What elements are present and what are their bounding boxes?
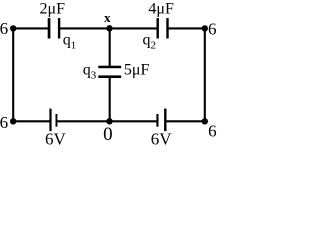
svg-text:6: 6 — [0, 113, 8, 132]
svg-text:6: 6 — [0, 19, 8, 38]
svg-text:6: 6 — [208, 121, 217, 140]
svg-text:q1: q1 — [63, 31, 77, 51]
svg-text:x: x — [104, 10, 111, 25]
svg-text:0: 0 — [103, 124, 113, 145]
svg-text:q2: q2 — [143, 31, 157, 51]
svg-text:q3: q3 — [83, 62, 97, 82]
svg-text:4μF: 4μF — [148, 0, 174, 17]
svg-text:6: 6 — [208, 19, 217, 38]
svg-text:6V: 6V — [45, 130, 67, 147]
svg-text:2μF: 2μF — [40, 0, 66, 17]
svg-text:6V: 6V — [151, 130, 173, 147]
svg-text:5μF: 5μF — [124, 62, 150, 79]
